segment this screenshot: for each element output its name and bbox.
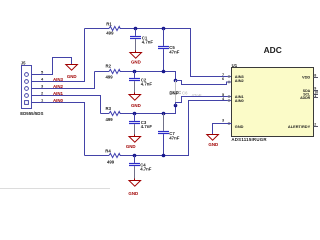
svg-text:GND: GND xyxy=(131,60,141,65)
wire net AIN2 xyxy=(32,72,95,89)
U1 pin 10 SCL xyxy=(314,94,319,96)
svg-text:U1: U1 xyxy=(232,63,238,68)
svg-text:GND: GND xyxy=(126,144,136,149)
node row2/C2 xyxy=(133,70,137,74)
svg-text:1: 1 xyxy=(314,94,316,98)
svg-text:GND: GND xyxy=(131,103,141,108)
wire row4 to U1 pin4 xyxy=(85,155,110,157)
U1 pin 1 ADDR xyxy=(314,97,319,99)
svg-text:GND: GND xyxy=(235,124,244,129)
wire U1 pin3 to ground xyxy=(213,124,232,135)
svg-text:8: 8 xyxy=(314,74,316,78)
U1 pin 9 SDA xyxy=(314,90,319,92)
IC U1 ADS1115 xyxy=(231,63,313,142)
svg-text:4.7nF: 4.7nF xyxy=(142,39,154,44)
svg-text:AIN1: AIN1 xyxy=(53,91,64,96)
svg-text:ALERT/RDY: ALERT/RDY xyxy=(288,124,311,129)
node AIN2/C6 xyxy=(174,79,178,83)
svg-text:AIN2: AIN2 xyxy=(235,78,245,83)
connector J5 xyxy=(22,66,32,109)
svg-text:GND: GND xyxy=(208,142,218,147)
sheet zone divider line xyxy=(0,188,110,190)
wire net AIN3 xyxy=(32,29,85,82)
svg-text:ADS1115IRUGR: ADS1115IRUGR xyxy=(231,137,267,142)
wire row2 xyxy=(95,71,110,73)
svg-text:AIN3: AIN3 xyxy=(53,77,64,82)
svg-text:47nF: 47nF xyxy=(192,93,202,98)
capacitor C6 DNP xyxy=(170,81,202,106)
node row2/C5 xyxy=(162,70,166,74)
ground at C1 xyxy=(130,53,142,59)
node AIN1/C6 xyxy=(174,104,178,108)
ground at C3 xyxy=(129,137,141,143)
wire row1 to U1 pin7 xyxy=(85,28,110,30)
node row3/C3 xyxy=(133,112,137,116)
capacitor C4 xyxy=(129,156,152,181)
U1 pin 2 ALERT/RDY xyxy=(314,126,319,128)
svg-text:499: 499 xyxy=(106,117,114,122)
resistor R2 xyxy=(109,69,121,73)
svg-text:2: 2 xyxy=(314,123,316,127)
svg-text:VDD: VDD xyxy=(302,74,310,79)
svg-text:GND: GND xyxy=(67,74,77,79)
capacitor C3 xyxy=(129,114,152,137)
svg-text:C6: C6 xyxy=(182,91,188,96)
svg-text:4.7nF: 4.7nF xyxy=(141,124,153,129)
capacitor C1 xyxy=(130,29,153,53)
U1 pin 8 VDD xyxy=(314,77,319,79)
capacitor C5 xyxy=(158,29,180,72)
svg-text:499: 499 xyxy=(107,159,115,164)
svg-text:AIN0: AIN0 xyxy=(53,98,64,103)
svg-text:R3: R3 xyxy=(106,106,112,111)
node row4/C7 xyxy=(162,154,166,158)
svg-text:499: 499 xyxy=(106,75,114,80)
svg-text:6: 6 xyxy=(222,77,224,81)
svg-text:ADC: ADC xyxy=(264,45,282,55)
resistor R4 xyxy=(109,153,121,157)
svg-text:ED555/5DS: ED555/5DS xyxy=(20,111,43,116)
svg-text:ADDR: ADDR xyxy=(300,96,311,100)
ground at C4 xyxy=(129,181,141,187)
svg-text:R1: R1 xyxy=(106,22,112,27)
wire net AIN1 xyxy=(32,96,101,114)
svg-text:4.7nF: 4.7nF xyxy=(140,167,152,172)
svg-text:AIN2: AIN2 xyxy=(53,84,64,89)
svg-text:AIN0: AIN0 xyxy=(235,98,244,103)
wire row3 xyxy=(101,113,110,115)
svg-text:47nF: 47nF xyxy=(169,49,179,54)
node row1/C5 xyxy=(162,27,166,31)
svg-text:499: 499 xyxy=(106,31,114,36)
wire AIN1 to U1 pin5 xyxy=(176,97,232,106)
svg-text:GND: GND xyxy=(128,191,138,196)
capacitor C2 xyxy=(129,72,152,95)
svg-text:R2: R2 xyxy=(106,63,112,68)
wire pin5 to ground xyxy=(32,58,72,75)
svg-text:4.7nF: 4.7nF xyxy=(141,81,153,86)
node row3/C7 xyxy=(162,112,166,116)
ground at J5 pin5 xyxy=(66,65,78,71)
ground at U1 pin3 xyxy=(207,135,219,141)
svg-text:3: 3 xyxy=(222,119,224,123)
svg-text:R4: R4 xyxy=(105,149,111,154)
svg-text:DNP: DNP xyxy=(169,91,178,96)
ground at C2 xyxy=(129,95,141,101)
resistor R3 xyxy=(109,111,121,115)
svg-text:47nF: 47nF xyxy=(169,135,179,140)
resistor R1 xyxy=(109,26,121,30)
svg-text:J5: J5 xyxy=(21,61,26,66)
capacitor C7 xyxy=(158,114,180,156)
wire AIN2 to U1 pin6 xyxy=(176,81,232,85)
wire net AIN0 xyxy=(32,103,85,156)
node row1/C1 xyxy=(134,27,138,31)
node row4/C4 xyxy=(133,154,137,158)
